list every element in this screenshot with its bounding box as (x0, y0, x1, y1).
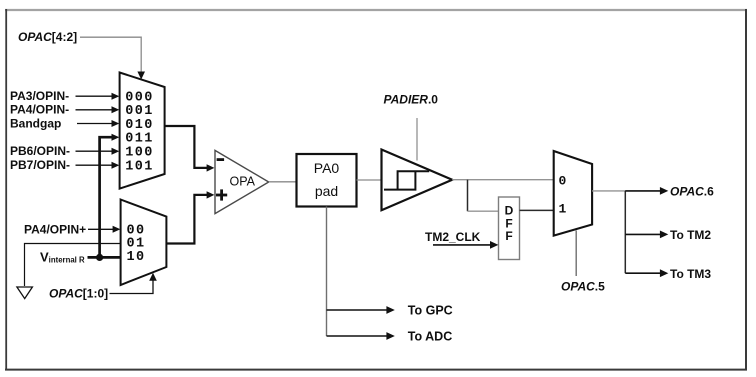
wire PA4/OPIN+ arrow (88, 228, 113, 230)
border frame top (5, 9, 747, 11)
svg-text:1: 1 (559, 202, 567, 217)
border frame bottom (5, 369, 747, 371)
svg-text:PADIER.0: PADIER.0 (384, 93, 439, 107)
wire DFF out to mux 1 (520, 209, 554, 211)
svg-text:101: 101 (125, 160, 154, 175)
wire PB6 arrow (76, 150, 113, 152)
wire OPAC.5 select (575, 231, 577, 277)
wire arrow to OPAC.6 (625, 190, 660, 192)
svg-text:PA4/OPIN-: PA4/OPIN- (10, 103, 69, 117)
box PA0 pad (297, 154, 357, 207)
mux U2 lower input mux (121, 200, 167, 286)
svg-text:OPAC[1:0]: OPAC[1:0] (49, 287, 108, 301)
svg-text:100: 100 (125, 146, 154, 161)
wire PADIER.0 select line (416, 118, 418, 161)
border frame right (745, 9, 747, 371)
svg-text:10: 10 (127, 250, 146, 265)
wire arrow to TM3 (625, 272, 660, 274)
mux U1 upper input mux (120, 73, 165, 189)
wire lower mux out to OPA plus (166, 195, 207, 244)
border frame left (5, 9, 7, 371)
svg-text:To TM2: To TM2 (670, 228, 711, 242)
minus sign (217, 158, 225, 161)
wire OPAC[1:0] to lower mux select (110, 281, 154, 294)
wire upper mux out to OPA minus (165, 126, 207, 168)
svg-text:TM2_CLK: TM2_CLK (425, 230, 481, 244)
box DFF (499, 197, 520, 260)
svg-text:OPA: OPA (230, 174, 256, 188)
mux U3 output mux (554, 151, 592, 236)
svg-text:011: 011 (125, 132, 154, 147)
wire branch vertical (624, 191, 626, 273)
wire 01 to ground (25, 244, 121, 287)
svg-text:PA0: PA0 (314, 160, 340, 176)
wire arrow to TM2 (625, 233, 660, 235)
wire OPA out to PA0 pad (269, 181, 297, 183)
wire junction down to DFF D (467, 180, 469, 212)
node junction dot (96, 254, 103, 261)
wire Bandgap arrow (77, 123, 112, 125)
svg-text:PB6/OPIN-: PB6/OPIN- (10, 144, 70, 158)
wire PA0 pad down (326, 207, 328, 337)
wire mux out (592, 190, 626, 192)
wire Vinternal feedback to 011 (thick) (100, 137, 112, 257)
wire PA0 pad to schmitt buffer (357, 179, 382, 181)
wire Vinternal R to 10 (thick) (88, 256, 121, 259)
wire PA3 arrow (76, 95, 113, 97)
svg-text:PA3/OPIN-: PA3/OPIN- (10, 89, 69, 103)
svg-text:pad: pad (315, 183, 338, 199)
wire arrow to GPC (327, 309, 388, 311)
svg-text:Bandgap: Bandgap (10, 116, 61, 130)
svg-text:OPAC[4:2]: OPAC[4:2] (18, 30, 77, 44)
svg-text:To TM3: To TM3 (670, 267, 711, 281)
svg-text:To ADC: To ADC (408, 330, 452, 344)
hysteresis symbol (384, 171, 429, 189)
svg-text:PB7/OPIN-: PB7/OPIN- (10, 158, 70, 172)
op-amp OPA (215, 150, 269, 213)
svg-text:OPAC.6: OPAC.6 (670, 185, 714, 199)
wire arrow to ADC (327, 335, 388, 337)
wire TM2_CLK arrow to DFF (433, 244, 491, 246)
wire schmitt out to mux 0 (452, 179, 553, 181)
wire PB7 arrow (76, 164, 113, 166)
plus sign (216, 194, 227, 197)
svg-text:OPAC.5: OPAC.5 (561, 279, 605, 293)
svg-text:F: F (505, 229, 512, 243)
svg-text:PA4/OPIN+: PA4/OPIN+ (24, 222, 86, 236)
wire OPAC[4:2] to upper mux select (80, 37, 141, 72)
svg-text:0: 0 (559, 174, 567, 189)
ground symbol (17, 287, 33, 299)
svg-text:To GPC: To GPC (408, 304, 453, 318)
buffer schmitt trigger (382, 150, 453, 211)
wire PA4 arrow (76, 109, 113, 111)
